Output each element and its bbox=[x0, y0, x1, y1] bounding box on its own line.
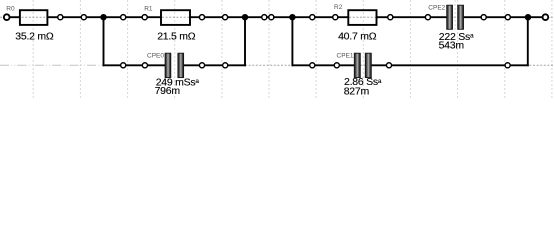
resistor R1 bbox=[161, 10, 190, 25]
svg-text:796m: 796m bbox=[155, 85, 181, 97]
junction dot D bbox=[525, 14, 531, 20]
terminal right bbox=[543, 14, 549, 20]
wire vertical junction right of parallel block 2 bbox=[527, 17, 529, 66]
wire vertical junction left of parallel block 1 bbox=[103, 17, 105, 66]
wire vertical junction right of parallel block 1 bbox=[244, 17, 246, 66]
svg-text:R0: R0 bbox=[6, 5, 15, 12]
svg-text:CPE2: CPE2 bbox=[428, 5, 445, 12]
CPE2 plates bbox=[447, 5, 464, 29]
CPE1 plates bbox=[354, 53, 371, 77]
grid vertical dashed lines bbox=[33, 0, 552, 98]
wire top row bbox=[10, 16, 542, 18]
svg-text:543m: 543m bbox=[439, 40, 465, 52]
svg-text:CPE0: CPE0 bbox=[147, 53, 164, 60]
resistor R2 bbox=[348, 10, 376, 25]
svg-text:827m: 827m bbox=[344, 85, 370, 97]
svg-text:CPE1: CPE1 bbox=[337, 53, 354, 60]
wire bottom branch 2 bbox=[292, 64, 529, 66]
CPE0 plates bbox=[165, 53, 183, 77]
junction dot A bbox=[100, 14, 106, 20]
terminal left bbox=[4, 14, 10, 20]
wire vertical junction left of parallel block 2 bbox=[291, 17, 293, 66]
svg-text:35.2 mΩ: 35.2 mΩ bbox=[15, 30, 54, 42]
resistor R0 bbox=[20, 10, 48, 25]
grid horizontal fine-dash centerline row2 bbox=[245, 64, 554, 66]
junction dot B bbox=[242, 14, 248, 20]
connection node circles top row bbox=[58, 15, 511, 20]
connection node circles bottom branches bbox=[121, 63, 511, 68]
svg-text:R2: R2 bbox=[334, 4, 343, 11]
svg-text:R1: R1 bbox=[144, 5, 153, 12]
wire bottom branch 1 bbox=[103, 64, 246, 66]
grid horizontal fine-dash centerline row1 bbox=[0, 16, 554, 18]
junction dot C bbox=[289, 14, 295, 20]
CPE2 element centerline bbox=[454, 0, 456, 31]
grid horizontal dash-dot-dot axis row2 left bbox=[0, 64, 104, 66]
svg-text:40.7 mΩ: 40.7 mΩ bbox=[338, 30, 377, 42]
svg-text:21.5 mΩ: 21.5 mΩ bbox=[157, 30, 196, 42]
